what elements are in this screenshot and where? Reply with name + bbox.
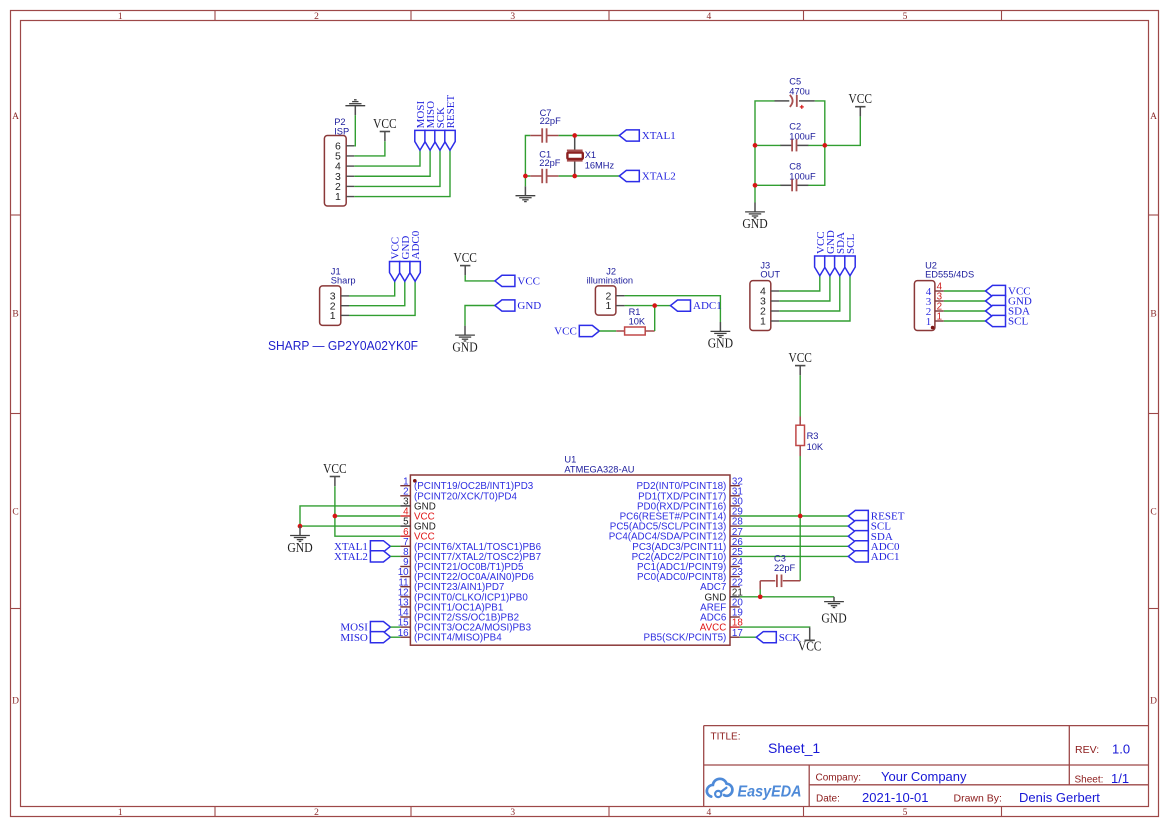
svg-text:R1: R1	[629, 307, 641, 317]
svg-text:A: A	[1150, 112, 1157, 122]
svg-text:ED555/4DS: ED555/4DS	[925, 270, 974, 280]
net flag SCL at U2	[986, 315, 1029, 327]
node junction right rail C2	[822, 143, 827, 148]
svg-text:1: 1	[335, 191, 341, 203]
svg-text:4: 4	[707, 808, 712, 818]
wire U1 pin28 to SCL	[740, 525, 849, 527]
wire XTAL2 to pin8	[390, 555, 400, 557]
wire VCC flag to R1	[599, 330, 616, 332]
wire VCC to R3	[799, 375, 801, 416]
net flag ADC1	[671, 300, 722, 312]
wire U1 pin3 to GND rail	[300, 506, 400, 526]
svg-text:1: 1	[926, 316, 932, 328]
connector P2	[324, 117, 354, 206]
svg-text:PB5(SCK/PCINT5): PB5(SCK/PCINT5)	[644, 633, 727, 644]
wire J3 pin3 to GND	[779, 276, 830, 301]
wire U1 pin25 to ADC1	[740, 555, 849, 557]
wire cap bank right rail	[808, 101, 825, 185]
svg-text:1: 1	[760, 316, 766, 328]
net flag VCC at J3	[815, 231, 827, 275]
svg-text:Your Company: Your Company	[881, 769, 967, 784]
net flag VCC at U2	[986, 285, 1031, 297]
wire U2 pin4 to VCC	[944, 290, 986, 292]
svg-text:U1: U1	[564, 454, 576, 464]
net flag SCK	[435, 107, 447, 150]
svg-text:VCC: VCC	[788, 350, 812, 365]
wire P2 pin5 to VCC	[354, 141, 385, 156]
wire GND flag to ground	[465, 306, 495, 326]
svg-text:EasyEDA: EasyEDA	[738, 784, 802, 801]
svg-text:10K: 10K	[807, 442, 824, 452]
svg-text:VCC: VCC	[517, 276, 540, 288]
svg-text:100uF: 100uF	[789, 172, 816, 182]
power flag VCC mid	[453, 250, 477, 275]
wire U1 pin27 to SDA	[740, 535, 849, 537]
svg-text:ISP: ISP	[334, 126, 349, 136]
net flag MISO	[425, 101, 437, 150]
power flag VCC cap bank	[849, 91, 873, 116]
svg-text:1: 1	[118, 808, 123, 818]
net flag MOSI at U1	[340, 622, 390, 634]
wire P2 pin1 to RESET	[354, 150, 450, 196]
net flag SCL at J3	[845, 234, 857, 276]
net flag SDA at J3	[835, 232, 847, 276]
capacitor C2	[780, 121, 816, 151]
svg-text:VCC: VCC	[798, 639, 822, 654]
svg-text:10K: 10K	[629, 317, 646, 327]
svg-text:VCC: VCC	[373, 116, 397, 131]
net flag VCC at J1	[390, 237, 402, 281]
svg-text:D: D	[1150, 697, 1157, 707]
wire node to ADC1 flag	[655, 305, 671, 307]
svg-text:Denis Gerbert: Denis Gerbert	[1019, 790, 1100, 805]
wire cap bank left rail	[755, 101, 775, 203]
wire J1 pin3 to VCC	[349, 281, 395, 296]
net flag VCC mid	[495, 275, 540, 287]
node junction RESET R3	[798, 514, 803, 519]
svg-text:5: 5	[903, 808, 908, 818]
svg-text:1: 1	[330, 310, 336, 322]
wire VCC to flag	[465, 275, 495, 281]
svg-text:Company:: Company:	[816, 773, 862, 784]
resistor R3	[796, 417, 824, 457]
title block	[704, 726, 1149, 807]
wire R3 to RESET net	[799, 456, 801, 516]
svg-text:REV:: REV:	[1075, 744, 1099, 756]
svg-text:Sheet:: Sheet:	[1075, 774, 1104, 785]
wire P2 pin6 to GND	[354, 115, 355, 146]
net flag ADC0 at J1	[410, 230, 422, 281]
svg-text:C: C	[12, 508, 18, 518]
wire XTAL1 to pin7	[390, 545, 400, 547]
node junction at XTAL2	[572, 174, 577, 179]
net flag XTAL2 at U1	[334, 551, 390, 563]
wire MOSI to pin15	[390, 626, 400, 628]
svg-text:C: C	[1150, 508, 1156, 518]
svg-text:C5: C5	[789, 76, 801, 86]
node junction left rail C2	[753, 143, 758, 148]
wire VCC to U1 pin6	[335, 516, 400, 536]
node junction crystal rail	[523, 174, 528, 179]
ground right of U1	[821, 597, 847, 626]
svg-text:4: 4	[707, 12, 712, 22]
wire MISO to pin16	[390, 636, 400, 638]
svg-text:MISO: MISO	[340, 632, 368, 644]
svg-text:22pF: 22pF	[540, 116, 562, 126]
svg-text:100uF: 100uF	[789, 132, 816, 142]
crystal X1	[567, 136, 615, 177]
svg-text:(PCINT4/MISO)PB4: (PCINT4/MISO)PB4	[414, 633, 502, 644]
net flag ADC0 right	[848, 541, 900, 553]
wire J2 pin1 to ADC1 node	[625, 305, 655, 307]
svg-text:GND: GND	[452, 339, 478, 354]
svg-text:VCC: VCC	[554, 326, 577, 338]
ground below J2 net	[708, 322, 734, 351]
svg-text:Drawn By:: Drawn By:	[954, 793, 1002, 805]
IC U1 ATMEGA328-AU	[398, 454, 744, 645]
svg-text:SCL: SCL	[1008, 316, 1028, 328]
connector J1	[320, 267, 356, 326]
svg-text:illumination: illumination	[587, 276, 634, 286]
wire P2 pin4 to MOSI	[354, 150, 420, 166]
svg-text:ATMEGA328-AU: ATMEGA328-AU	[564, 464, 634, 474]
svg-text:D: D	[12, 697, 19, 707]
capacitor C1	[530, 150, 561, 184]
svg-text:XTAL2: XTAL2	[642, 171, 676, 183]
net flag VCC at R1	[554, 325, 599, 337]
svg-text:SCK: SCK	[779, 632, 800, 644]
wire C8 left	[755, 184, 781, 186]
wire U2 pin3 to GND	[944, 300, 986, 302]
svg-text:GND: GND	[821, 611, 847, 626]
svg-text:Sharp: Sharp	[331, 276, 356, 286]
svg-text:2: 2	[314, 12, 319, 22]
capacitor C8	[780, 161, 816, 191]
wire C7 to XTAL1 flag	[559, 135, 620, 137]
svg-text:3: 3	[510, 808, 515, 818]
ground above P2	[345, 100, 365, 115]
svg-text:XTAL1: XTAL1	[642, 130, 676, 142]
svg-text:470u: 470u	[789, 87, 810, 97]
capacitor C7	[530, 108, 561, 143]
wire U2 pin2 to SDA	[944, 310, 986, 312]
wire J1 pin2 to GND	[349, 281, 405, 305]
svg-text:22pF: 22pF	[539, 158, 561, 168]
net flag RESET	[445, 95, 457, 151]
wire P2 pin2 to SCK	[354, 150, 440, 186]
svg-text:C2: C2	[789, 121, 801, 131]
wire R1 to node	[654, 306, 656, 331]
ground below cap bank	[742, 203, 768, 232]
wire U1 pin18 AVCC to VCC	[740, 626, 810, 628]
svg-text:Date:: Date:	[816, 794, 840, 805]
wire crystal left rail	[525, 136, 530, 177]
node junction J2 pin1	[652, 303, 657, 308]
node junction VCC pin4	[333, 514, 338, 519]
wire J1 pin1 to ADC0	[349, 281, 415, 315]
wire C1 to XTAL2 flag	[559, 175, 620, 177]
svg-text:OUT: OUT	[760, 270, 780, 280]
wire J3 pin1 to SCL	[779, 276, 850, 321]
svg-text:A: A	[12, 112, 19, 122]
wire U2 pin1 to SCL	[944, 320, 986, 322]
net flag ADC1 right	[848, 551, 899, 563]
power flag VCC at AVCC	[798, 627, 822, 653]
wire GND rail to U1 pin5	[300, 525, 400, 527]
wire VCC to U1 pin4	[335, 486, 400, 516]
net flag SDA right	[848, 531, 893, 543]
wire crystal left rail to ground	[524, 176, 526, 186]
svg-text:3: 3	[510, 12, 515, 22]
net flag SCL right	[848, 521, 891, 533]
wire U1 pin21 to ground	[740, 596, 834, 598]
svg-text:GND: GND	[742, 216, 768, 231]
connector J3	[750, 261, 780, 331]
wire P2 pin3 to MISO	[354, 150, 430, 176]
svg-text:5: 5	[903, 12, 908, 22]
net flag GND at J3	[825, 230, 837, 276]
net flag MISO at U1	[340, 632, 390, 644]
svg-text:GND: GND	[708, 336, 734, 351]
svg-text:C8: C8	[789, 161, 801, 171]
svg-text:P2: P2	[334, 117, 345, 127]
svg-text:SCL: SCL	[845, 234, 857, 254]
net flag SCK right	[756, 632, 800, 644]
capacitor C5 polarized	[775, 76, 815, 109]
svg-text:ADC0: ADC0	[410, 230, 422, 259]
svg-text:16MHz: 16MHz	[585, 161, 615, 171]
net flag XTAL1	[619, 130, 675, 142]
svg-text:XTAL2: XTAL2	[334, 551, 368, 563]
EasyEDA logo	[707, 779, 802, 801]
svg-text:B: B	[1150, 310, 1156, 320]
svg-text:R3: R3	[807, 431, 819, 441]
svg-text:1: 1	[606, 300, 612, 312]
svg-text:SHARP — GP2Y0A02YK0F: SHARP — GP2Y0A02YK0F	[268, 338, 418, 353]
svg-text:RESET: RESET	[445, 95, 457, 129]
svg-text:ADC1: ADC1	[871, 551, 900, 563]
net flag XTAL2	[619, 170, 675, 182]
node junction at XTAL1	[572, 133, 577, 138]
svg-text:TITLE:: TITLE:	[711, 731, 741, 742]
svg-text:ADC1: ADC1	[693, 300, 722, 312]
svg-text:1.0: 1.0	[1112, 742, 1130, 757]
net flag MOSI	[415, 101, 427, 151]
wire C3 to GND net	[759, 581, 761, 590]
svg-text:VCC: VCC	[849, 91, 873, 106]
svg-text:X1: X1	[585, 150, 596, 160]
wire U1 pin29 to RESET	[740, 515, 849, 517]
net flag RESET right	[848, 510, 904, 522]
svg-text:GND: GND	[517, 300, 541, 312]
svg-text:B: B	[12, 310, 18, 320]
connector J2	[587, 267, 634, 316]
power flag VCC at P2	[373, 116, 397, 141]
net flag GND mid	[495, 300, 541, 312]
svg-text:GND: GND	[287, 540, 313, 555]
wire U1 pin17 to SCK	[740, 636, 757, 638]
wire J2 pin2 to GND	[625, 296, 721, 322]
svg-text:Sheet_1: Sheet_1	[768, 740, 820, 756]
node junction GND pin5	[298, 524, 303, 529]
wire C2 left	[755, 144, 781, 146]
svg-text:VCC: VCC	[323, 461, 347, 476]
svg-text:2: 2	[314, 808, 319, 818]
wire J3 pin2 to SDA	[779, 276, 840, 311]
net flag GND at J1	[400, 236, 412, 282]
ground below crystal rail	[516, 186, 536, 201]
wire U1 pin26 to ADC0	[740, 545, 849, 547]
resistor R1	[616, 307, 655, 335]
wire J3 pin4 to VCC	[779, 276, 820, 291]
power flag VCC at R3	[788, 350, 812, 375]
svg-text:22pF: 22pF	[774, 563, 796, 573]
net flag XTAL1 at U1	[334, 541, 390, 553]
net flag SDA at U2	[986, 305, 1031, 317]
wire C2 right to VCC	[808, 116, 860, 145]
capacitor C3	[760, 554, 800, 588]
svg-text:2021-10-01: 2021-10-01	[862, 790, 929, 805]
svg-text:1: 1	[118, 12, 123, 22]
svg-text:1/1: 1/1	[1111, 771, 1129, 786]
svg-text:VCC: VCC	[453, 250, 477, 265]
node junction GND C3	[758, 594, 763, 599]
ground mid	[452, 326, 478, 355]
net flag GND at U2	[986, 295, 1032, 307]
node junction left rail C8	[753, 183, 758, 188]
wire RESET net down to C3	[799, 516, 801, 581]
IC U2	[914, 261, 974, 331]
ground left of U1	[287, 526, 313, 555]
power flag VCC left of U1	[323, 461, 347, 486]
